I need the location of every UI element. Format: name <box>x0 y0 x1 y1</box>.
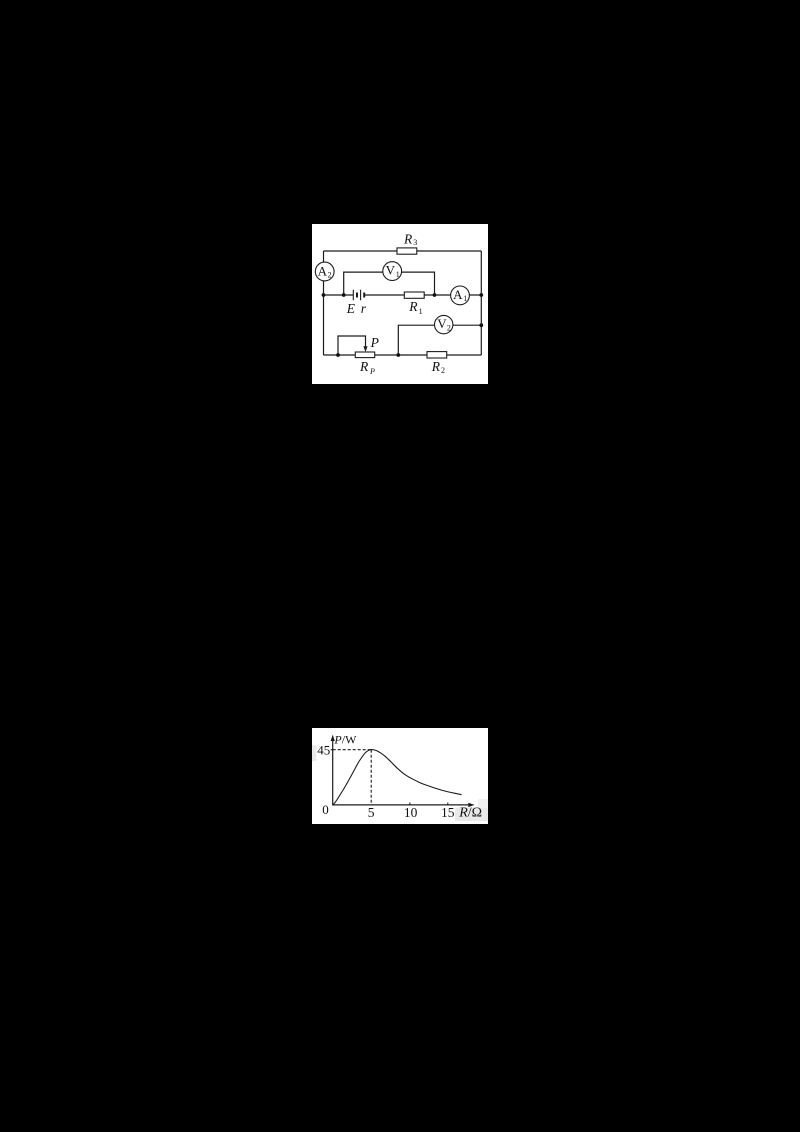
potentiometer RP body <box>355 352 374 358</box>
tick 10 on x axis <box>409 803 411 805</box>
wire top <box>324 250 482 252</box>
svg-text:A: A <box>318 263 328 278</box>
ammeter A1 <box>451 286 470 305</box>
svg-text:1: 1 <box>463 294 467 303</box>
svg-text:0: 0 <box>322 802 329 817</box>
wire voltmeter V2 branch <box>398 325 481 355</box>
resistor R1 <box>404 292 424 298</box>
svg-text:V: V <box>437 316 447 331</box>
ammeter A2 <box>315 262 334 281</box>
wire voltmeter V1 loop <box>344 272 435 295</box>
wire left <box>323 251 325 355</box>
node: right wire V2 junction <box>479 323 483 327</box>
node: left-middle junction <box>322 293 326 297</box>
svg-text:3: 3 <box>413 238 417 247</box>
svg-text:P/W: P/W <box>333 732 357 746</box>
dashed guide to peak <box>333 750 372 805</box>
svg-text:A: A <box>453 287 463 302</box>
svg-text:V: V <box>386 263 396 278</box>
svg-text:R/Ω: R/Ω <box>458 806 482 821</box>
wire potentiometer wiper tap <box>338 336 366 355</box>
resistor R3 <box>397 248 417 254</box>
P-R graph panel <box>312 728 488 824</box>
svg-text:E: E <box>346 301 356 316</box>
P(R) curve <box>333 750 462 805</box>
wire middle (battery row) <box>324 294 482 296</box>
node: V2 bottom junction <box>396 353 400 357</box>
svg-text:R: R <box>431 359 441 374</box>
svg-text:10: 10 <box>404 805 418 820</box>
svg-text:5: 5 <box>368 805 375 820</box>
svg-text:R: R <box>359 359 369 374</box>
tick 15 on x axis <box>447 803 449 805</box>
voltmeter V2 <box>435 315 453 333</box>
node: right wire middle junction <box>479 293 483 297</box>
svg-text:1: 1 <box>419 307 423 316</box>
wire right <box>480 251 482 355</box>
svg-text:P: P <box>370 335 379 350</box>
y axis <box>332 740 334 806</box>
svg-text:R: R <box>408 299 418 314</box>
potentiometer arrow head P <box>363 346 367 352</box>
voltmeter V1 <box>383 262 402 281</box>
wire bottom <box>324 354 482 356</box>
svg-text:2: 2 <box>328 271 332 280</box>
node: battery left / V1 branch junction <box>342 293 346 297</box>
tick 45 on y axis <box>331 749 333 751</box>
node: wiper tap on bottom wire <box>336 353 340 357</box>
x axis <box>333 804 469 806</box>
node: right of R1 / V1 branch junction <box>433 293 437 297</box>
svg-text:1: 1 <box>396 270 400 279</box>
svg-text:r: r <box>361 301 367 316</box>
svg-text:P: P <box>369 367 375 376</box>
svg-text:45: 45 <box>317 742 330 757</box>
circuit schematic panel <box>312 224 488 384</box>
svg-text:2: 2 <box>447 324 451 333</box>
battery E r <box>353 290 364 301</box>
svg-text:2: 2 <box>441 366 445 375</box>
svg-text:15: 15 <box>441 805 455 820</box>
svg-text:R: R <box>403 231 413 246</box>
resistor R2 <box>427 352 447 358</box>
